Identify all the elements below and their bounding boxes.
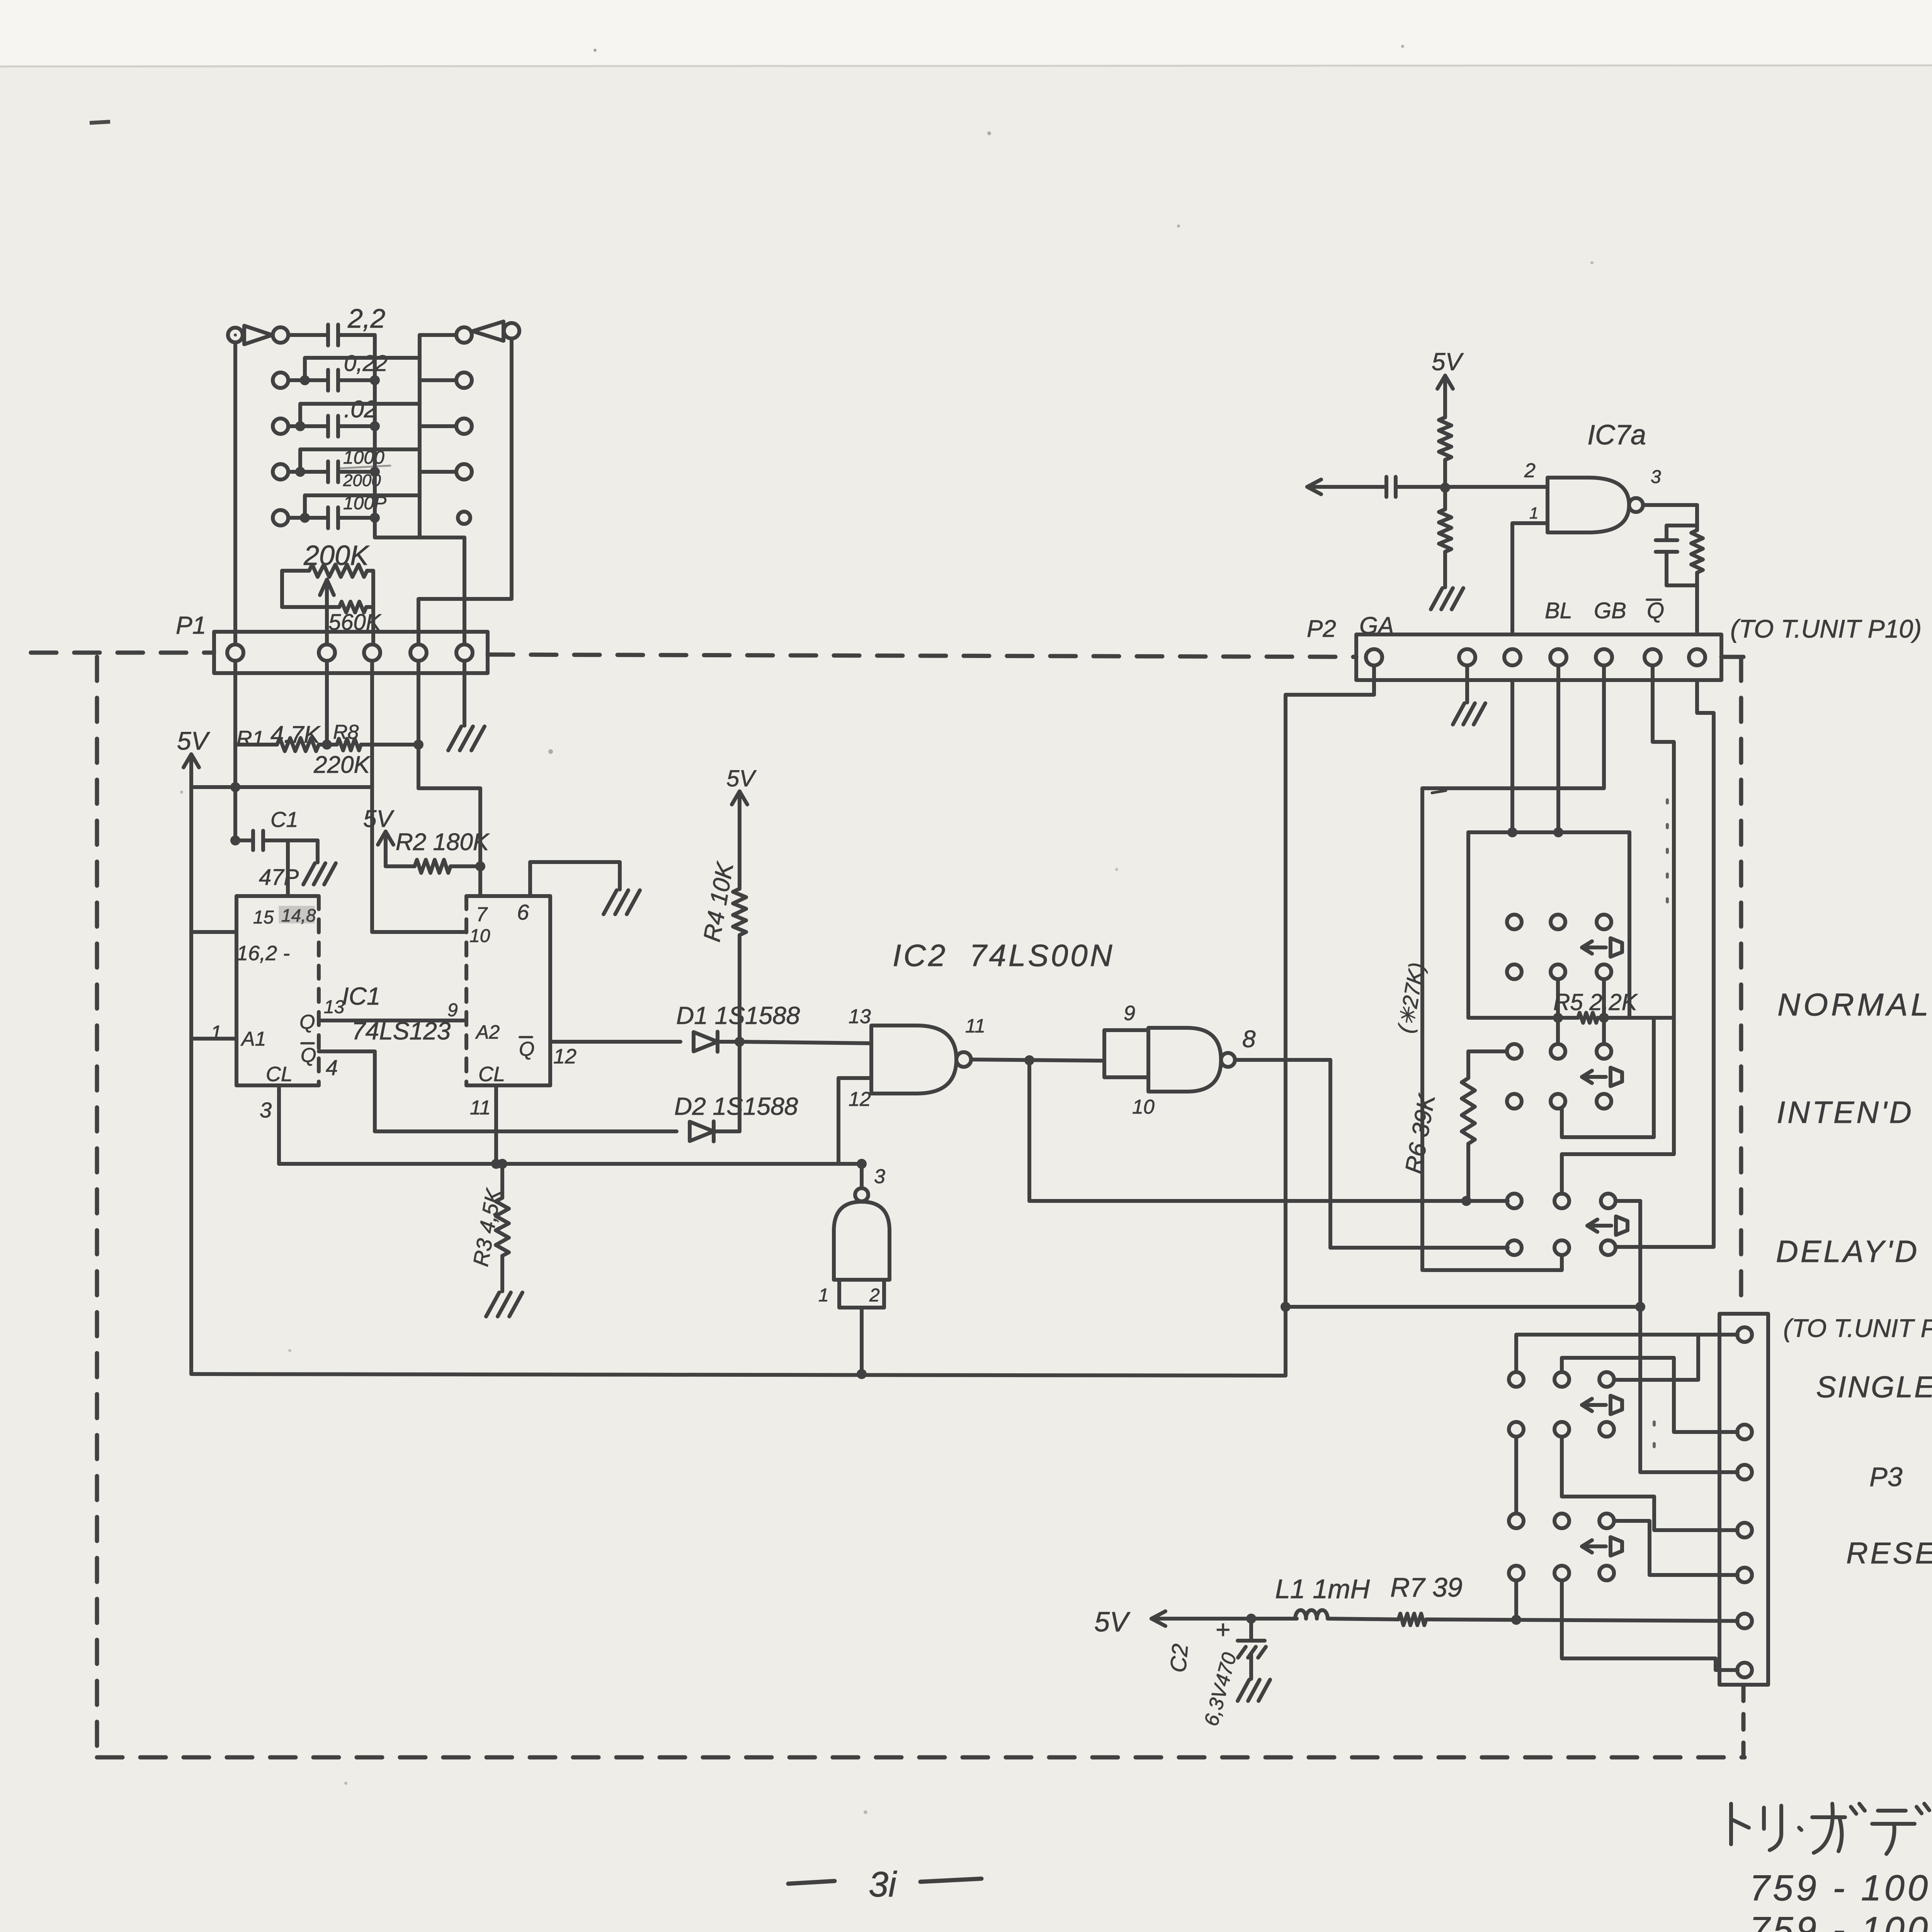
svg-text:5V: 5V [1432,348,1464,376]
wire bypass row3 [300,404,420,426]
NAND gate IC2c output bubble [855,1188,868,1201]
wire right circle link row1 [420,333,456,337]
wire P2 pin7 down [1616,680,1714,1247]
svg-text:7: 7 [476,903,488,926]
svg-text:9: 9 [1124,1002,1135,1025]
svg-text:1: 1 [1529,504,1538,522]
wire IC1a CL pin3 down [277,1085,281,1164]
page number 3i [788,1881,835,1884]
wire P1 pin2 down [325,661,329,745]
wire P2 pin2 ground [1465,665,1469,702]
INTEND contact top 3 [1597,1044,1611,1059]
P3 pin 1 [1737,1327,1752,1342]
svg-text:1: 1 [818,1285,829,1306]
P1 pin 5 [456,645,473,661]
resistor R2 180K [386,864,415,868]
SINGLE contact bottom 1 [1509,1422,1524,1437]
svg-text:12: 12 [849,1088,871,1111]
svg-text:C2: C2 [1165,1643,1193,1674]
P3 pin 3 [1737,1465,1752,1480]
IC2c input pin box [839,1280,884,1308]
P3 pin 7 [1737,1663,1752,1677]
svg-text:BL: BL [1545,598,1572,623]
wire SINGLE bottom-mid to P3 pin4 [1562,1437,1738,1530]
potentiometer VR1 200K [282,569,309,573]
ground at IC1b pin6 [604,890,617,914]
enclosure dashed boundary right vertical upper [1739,657,1743,1311]
ground under P2 pin2 [1453,703,1464,724]
svg-text:16,2 -: 16,2 - [236,942,290,965]
svg-text:2: 2 [1524,459,1536,482]
svg-text:SINGLE .: SINGLE . [1816,1370,1932,1404]
wire P2 pin4 down to switch [1556,665,1560,832]
P1 pin 3 [364,645,380,661]
P3 pin 5 [1737,1568,1752,1582]
RESET contact bottom 3 [1599,1566,1614,1580]
wire right circle link row3 [420,424,456,428]
wire P1 pin1 down [233,661,237,840]
svg-text:P2: P2 [1307,616,1336,642]
switch contact circle left row2 [273,372,288,388]
svg-text:Q: Q [1647,598,1664,623]
resistor divider upper (IC7a) [1443,374,1447,378]
P3 pin 6 [1737,1614,1752,1628]
switch inner box left [1466,832,1470,1018]
resistor R3 4.5K [500,1164,504,1198]
wire GA down [1286,665,1374,1376]
enclosure dashed boundary top-left segment [31,651,214,655]
wire to IC1b pin10 [372,930,466,934]
mechanical gang dashes lower [1653,1422,1656,1461]
svg-text:.02: .02 [344,396,377,423]
resistor 560K (series) [339,602,366,612]
wire A1 input [191,1037,236,1041]
wire Q13 to A2(9) [319,1019,466,1022]
svg-text:R5 2,2K: R5 2,2K [1553,989,1638,1015]
svg-text:L1 1mH: L1 1mH [1275,1574,1370,1604]
switch contact circle right row2 [456,372,472,388]
inductor L1 1mH [1295,1610,1328,1619]
svg-text:CL: CL [478,1063,505,1086]
wire C1 to IC1a top [286,840,290,896]
wire P1 pin3 down [370,661,374,932]
resistor R8 220K [319,743,337,747]
P1 pin 4 [410,645,427,661]
svg-text:P3: P3 [1869,1462,1903,1492]
svg-text:6: 6 [517,900,529,924]
svg-text:5V: 5V [363,806,395,832]
wire 8 to DELAYD bottom-left [1330,1246,1508,1250]
svg-text:13: 13 [324,997,345,1017]
INTEND contact bottom 3 [1597,1094,1611,1109]
INTEND wiper arrow [1582,1075,1606,1079]
svg-text:RESET: RESET [1846,1536,1932,1570]
svg-text:INTEN'D: INTEN'D [1777,1095,1914,1129]
timing capacitor CT2 0.22 [326,370,330,391]
DELAYD contact top 1 [1507,1194,1522,1208]
svg-text:Q: Q [301,1044,316,1066]
svg-text:2,2: 2,2 [347,303,385,333]
P2 pin 7 [1689,649,1705,665]
connector P3 [1719,1314,1768,1685]
switch contact circle left row1 [273,327,288,343]
resistor R4 10K [738,789,742,793]
wire IC1a Qbar pin4 path [319,1051,677,1131]
wire 11 to delay rail [1027,1060,1031,1201]
wire RESET bottom-left stub [1514,1580,1518,1620]
wire SINGLE top-mid to P3 pin2 [1562,1358,1738,1432]
enclosure dashed boundary left vertical [95,657,99,1757]
timing capacitor CT5 100P [326,507,330,528]
ground at C1 [303,863,315,884]
snubber resistor [1695,526,1699,530]
INTEND box bottom [1562,1135,1654,1139]
5V arrow for R2 [384,830,388,833]
connector P2 [1356,634,1721,680]
INTEND contact top 2 [1551,1044,1565,1059]
wire bypass row2 [305,358,420,380]
capacitor C2 (electrolytic) [1249,1619,1253,1641]
wire bypass row5 [305,495,420,518]
ground at C2 [1238,1680,1249,1701]
switch outer box [1422,665,1604,788]
ground below divider [1431,588,1442,609]
switch contact circle left row5 [273,510,288,526]
wire IC1b Qbar pin12 [550,1040,680,1044]
wire SINGLE bottom-left to RESET top-left [1514,1437,1518,1514]
wire IC2a pin12 [838,1078,871,1164]
rotary switch S1b wiper triangle (right) [473,321,503,341]
wire 5V tee to P1 pin3 line [191,785,372,789]
delay rail to switch [1029,1199,1508,1203]
svg-text:5V: 5V [1094,1607,1131,1638]
P1 pin 1 [227,645,243,661]
capacitor C1 47P [235,838,253,842]
NORMAL contact top 1 [1507,915,1522,929]
SINGLE contact bottom 3 [1599,1422,1614,1437]
enclosure dashed boundary P1-P2 segment [488,655,1356,657]
P3 pin 2 [1737,1425,1752,1439]
resistor R5 2.2K [1468,1016,1578,1020]
switch contact circle left row3 [273,418,288,434]
svg-text:3i: 3i [869,1865,897,1904]
DELAYD contact bottom 2 [1554,1240,1569,1255]
DELAYD contact bottom 1 [1507,1240,1522,1255]
wire P2 pin3 down to switch [1510,680,1514,832]
NORMAL contact top 2 [1551,915,1565,929]
wire cap bus vertical [375,335,464,645]
svg-text:47P: 47P [259,865,299,890]
INTEND contact bottom 1 [1507,1094,1522,1109]
enclosure dashed boundary right vertical lower [1742,1685,1746,1757]
timing capacitor CT3 .02 [326,416,330,437]
P2 pin 4 [1550,649,1566,665]
svg-text:GB: GB [1594,598,1626,623]
DELAYD wiper arrow [1587,1224,1611,1228]
P1 pin 2 [319,645,335,661]
wire P1 pin5 down to ground [463,661,466,726]
wire P2 pin6 Qbar down [1562,665,1674,1194]
NORMAL contact top 3 [1597,915,1611,929]
svg-text:NORMAL: NORMAL [1777,987,1932,1022]
wire IC2c inputs down [860,1308,864,1374]
svg-text:5V: 5V [726,765,757,791]
svg-text:R2 180K: R2 180K [396,829,490,855]
svg-text:IC1: IC1 [342,982,381,1010]
wire IC2b out 8 [1235,1058,1330,1062]
svg-text:11: 11 [470,1097,491,1119]
svg-text:759 - 1000 - 01 (BS - 612) ✳: 759 - 1000 - 01 (BS - 612) ✳ [1750,1909,1932,1932]
diode D1 1S1588 [694,1032,718,1051]
svg-text:R7 39: R7 39 [1390,1572,1463,1602]
wire R2 to IC1b pin7 [478,788,482,896]
RESET contact top 3 [1599,1514,1614,1528]
resistor R1 4.7K [235,743,277,747]
svg-text:A2: A2 [475,1021,500,1043]
wire DELAYD mid-bottom down [1424,1255,1562,1270]
caption trigger delay unit (katakana) [1731,1804,1749,1844]
wire RESET top-right to P3 pin5 [1614,1521,1738,1575]
IC1a body (74LS123 first half) [236,894,319,898]
wire right ladder vertical [418,335,422,537]
coupling capacitor (ext trigger) [1305,485,1309,489]
DELAYD contact top 3 [1601,1194,1616,1208]
wire RESET bottom-mid to P3 pin7 [1562,1580,1738,1670]
P2 pin 6 [1645,649,1661,665]
NAND gate IC2c [834,1202,889,1280]
wire bypass row4 [300,449,420,472]
wire S1b wiper to P1 pin4 [418,338,512,645]
wire 8 down [1328,1060,1332,1248]
svg-text:IC2 74LS00N: IC2 74LS00N [893,938,1115,973]
svg-text:11: 11 [965,1015,985,1037]
SINGLE contact top 3 [1599,1372,1614,1387]
P2 pin 3 [1504,649,1520,665]
wire GA branch to DELAYD wiper [1286,1305,1640,1309]
svg-text:10: 10 [1132,1096,1155,1118]
svg-text:Q: Q [519,1038,534,1060]
rotary switch S1a wiper triangle (left) [244,326,272,344]
IC1b body (74LS123 second half) [466,894,550,898]
wire L1 to R7 [1328,1619,1398,1619]
wire INTEND left to R6 [1468,1049,1507,1053]
svg-text:12: 12 [553,1045,577,1068]
wire pin3 from delay line [1640,1470,1738,1474]
svg-text:15: 15 [253,907,274,928]
svg-text:3: 3 [1651,467,1661,487]
wire INTEND right up [1602,1018,1606,1044]
svg-text:Q: Q [299,1011,315,1033]
svg-text:R1: R1 [236,726,264,750]
wire IC7a output [1643,503,1697,507]
svg-text:0,22: 0,22 [344,351,388,376]
enclosure dashed boundary bottom [97,1755,1745,1760]
wire D1 to IC2a pin13 [740,1042,871,1043]
SINGLE contact top 1 [1509,1372,1524,1387]
switch contact circle left row4 [273,464,288,480]
P3 pin 4 [1737,1523,1752,1537]
RESET contact top 2 [1554,1514,1569,1528]
svg-text:13: 13 [849,1005,871,1028]
svg-text:+: + [1216,1615,1231,1644]
SINGLE wiper arrow [1582,1403,1606,1407]
wire IC2a out 11 [971,1060,1104,1061]
NAND gate IC2b [1148,1028,1221,1092]
resistor R6 39K [1466,1051,1470,1078]
INTEND contact top 1 [1507,1044,1522,1059]
svg-text:5V: 5V [177,726,211,755]
wire S1a wiper to P1 pin1 [233,342,237,645]
wire SINGLE top-right joins pin1 riser [1614,1335,1698,1380]
svg-text:(TO T.UNIT P10): (TO T.UNIT P10) [1730,614,1922,643]
wire INTEND mid-bottom stub [1560,1109,1564,1137]
wire right circle link row2 [420,378,456,382]
svg-text:10: 10 [469,926,490,946]
switch contact circle right row4 [456,464,472,480]
svg-text:220K: 220K [313,752,371,778]
INTEND contact bottom 2 [1551,1094,1565,1109]
wire D2 up to D1 junction [738,1042,742,1131]
svg-text:CL: CL [266,1063,293,1086]
svg-text:C1: C1 [270,807,298,832]
snubber cap [1667,505,1697,540]
SINGLE contact bottom 2 [1554,1422,1569,1437]
wire pot right to P1 pin3 [371,571,375,645]
svg-text:3: 3 [874,1165,885,1188]
DELAYD contact top 2 [1554,1194,1569,1208]
NORMAL contact bottom 2 [1551,964,1565,979]
wire clear rail stub to IC2c [860,1164,864,1188]
switch inner box top [1468,830,1629,834]
wire INTEND mid up [1556,1018,1560,1044]
wire 5V to IC1a pin16 [191,930,236,934]
RESET contact top 1 [1509,1514,1524,1528]
enclosure dashed stub right of P2 [1721,655,1743,659]
trigger return rail [191,1374,1286,1376]
5V arrow and trigger vertical [189,752,193,756]
switch contact circle right row1 [456,327,472,343]
DELAYD contact bottom 3 [1601,1240,1616,1255]
switch contact circle right row3 [456,418,472,434]
wire P1 pin4 jog to pin7 [417,661,420,788]
switch contact circle right row5 [458,512,470,524]
wire NORMAL right to R5 rail [1602,979,1606,1018]
NORMAL contact bottom 1 [1507,964,1522,979]
svg-text:(TO T.UNIT P8): (TO T.UNIT P8) [1783,1314,1932,1342]
RESET contact bottom 1 [1509,1566,1524,1580]
svg-text:IC7a: IC7a [1587,420,1646,451]
wire IC1b pin11 down [494,1085,498,1164]
diode D2 1S1588 [690,1122,714,1141]
IC2b input box [1104,1030,1148,1077]
NORMAL contact bottom 3 [1597,964,1611,979]
wire DELAYD top-right to GA branch [1616,1199,1640,1203]
supply arrow left [1150,1617,1153,1621]
wire clear rail [279,1162,862,1166]
wire IC7a pin1 to P2 pin3 [1512,523,1548,634]
svg-text:4.7K: 4.7K [270,721,321,748]
small tick on outer box [1432,791,1446,793]
svg-text:8: 8 [1242,1026,1256,1053]
ground at R3 [486,1293,499,1316]
resistor R7 39 [1398,1614,1426,1625]
svg-text:759 - 1000 - 00 (BS - 620.62: 759 - 1000 - 00 (BS - 620.62 [1750,1867,1932,1908]
P2 pin 2 [1459,649,1475,665]
svg-text:P1: P1 [176,611,206,639]
svg-text:A1: A1 [240,1028,266,1050]
rotary switch S1b wiper contact (right) [504,323,519,338]
wire R7 to P3 pin6 [1426,1619,1738,1621]
NORMAL wiper arrow [1582,946,1606,949]
svg-text:3: 3 [260,1098,272,1122]
wire IC1b pin6 to ground [530,862,620,896]
RESET wiper arrow [1582,1544,1606,1548]
resistor divider lower (IC7a) [1443,488,1447,509]
wire right circle link row4 [420,470,456,474]
SINGLE contact top 2 [1554,1372,1569,1387]
rotary switch S1a wiper contact (left) [228,328,243,342]
timing capacitor CT4 2000P [326,461,330,482]
wire NORMAL mid to R5 rail [1556,979,1560,1018]
switch inner box right [1628,832,1631,1018]
NAND gate IC2a [871,1026,956,1094]
svg-text:R8: R8 [333,721,359,743]
svg-text:9: 9 [447,1000,458,1020]
INTEND box right [1652,1018,1656,1137]
P2 pin 1 [1366,649,1382,665]
svg-text:1: 1 [211,1022,222,1044]
svg-text:D2 1S1588: D2 1S1588 [674,1092,798,1120]
svg-text:4: 4 [326,1055,338,1080]
svg-text:2: 2 [869,1285,880,1306]
mechanical gang dashes upper [1666,800,1669,912]
P2 pin 5 [1596,649,1612,665]
wire SINGLE top-left to P3 pin1 [1516,1335,1738,1372]
ground under P1 pin5 [448,726,461,750]
connector P1 [214,632,488,673]
NAND gate IC7a [1548,478,1629,532]
pot wiper arrow [325,584,329,645]
svg-text:DELAY'D: DELAY'D [1776,1234,1919,1269]
timing capacitor CT1 2.2 [326,325,330,345]
RESET contact bottom 2 [1554,1566,1569,1580]
